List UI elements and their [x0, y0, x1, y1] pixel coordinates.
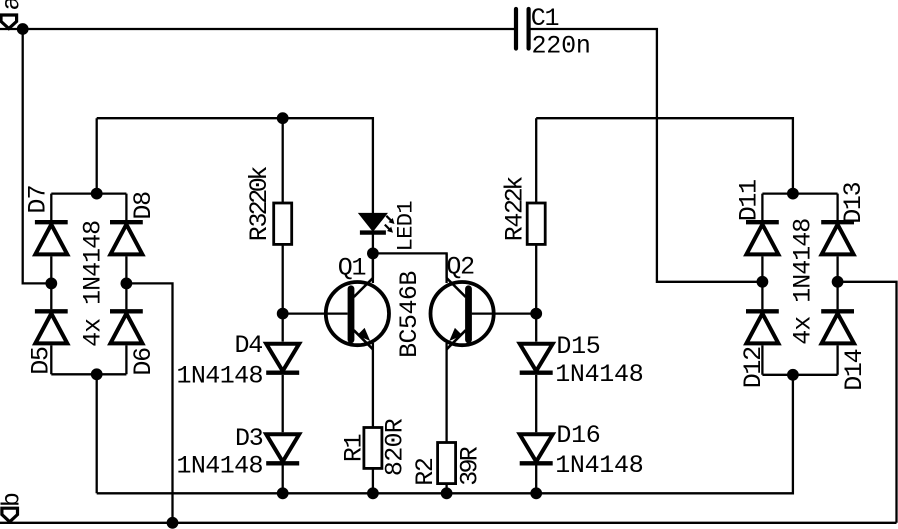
svg-text:D15: D15 [556, 332, 600, 361]
wire left rail down from a [23, 29, 52, 283]
diode D15 [520, 332, 644, 389]
resistor R2 [411, 443, 484, 486]
terminal b [2, 508, 18, 522]
svg-text:D11: D11 [734, 180, 763, 221]
wire right bridge chain D11/D12 [761, 194, 763, 375]
svg-text:22k: 22k [501, 177, 530, 214]
node D3 bottom [277, 487, 289, 499]
wire right bridge bottom [762, 374, 837, 376]
wire right bridge chain D13/D14 [836, 194, 838, 375]
node Q2 base [530, 308, 542, 320]
node left bridge bottom [91, 368, 103, 380]
capacitor C1 [516, 4, 591, 61]
svg-text:D16: D16 [556, 421, 600, 450]
diode D6 [110, 311, 158, 375]
svg-text:D3: D3 [235, 424, 263, 453]
transistor Q1 [326, 253, 389, 349]
svg-text:LED1: LED1 [393, 201, 418, 252]
node a junction [17, 23, 29, 35]
diode D8 [110, 192, 158, 255]
wire Q2 emitter to R2 [445, 343, 447, 493]
svg-text:Q2: Q2 [446, 253, 474, 282]
wire rail y118 left [97, 118, 373, 214]
svg-text:C1: C1 [531, 4, 559, 33]
terminal a [1, 15, 17, 29]
svg-text:R2: R2 [411, 458, 440, 486]
wire rail y118 right [536, 118, 793, 193]
diode D11 [734, 180, 779, 255]
LED1 [360, 201, 419, 252]
transistor Q2 [431, 253, 494, 350]
svg-text:1N4148: 1N4148 [555, 360, 643, 389]
svg-text:D5: D5 [26, 347, 55, 375]
svg-text:1N4148: 1N4148 [177, 362, 263, 391]
svg-text:39R: 39R [455, 446, 484, 486]
svg-text:D8: D8 [129, 192, 158, 220]
wire left chain D7/D5 [50, 194, 52, 375]
wire left bridge bottom stub [96, 374, 98, 493]
diode D16 [520, 421, 644, 480]
diode D3 [177, 424, 300, 481]
wire right bridge top [762, 192, 837, 194]
resistor R1 [339, 418, 409, 476]
wire left bridge bottom [51, 373, 126, 375]
wire b rail [0, 522, 897, 524]
node left bridge top [91, 188, 103, 200]
diode D13 [821, 182, 868, 254]
svg-text:D12: D12 [739, 347, 768, 388]
wire Q2 base [472, 312, 537, 314]
node Q1 base [277, 308, 289, 320]
node R3 top [277, 112, 289, 124]
svg-text:1N4148: 1N4148 [177, 452, 263, 481]
svg-text:R3: R3 [245, 213, 274, 241]
wire left bridge top stub [96, 118, 98, 193]
diode D12 [739, 311, 779, 388]
wire LED bottom / collector junction row [373, 234, 447, 283]
svg-text:1N4148: 1N4148 [555, 451, 643, 480]
wire R3 column [282, 118, 284, 493]
svg-text:220k: 220k [245, 167, 274, 216]
svg-text:820R: 820R [381, 418, 410, 476]
wire top rail a [0, 28, 514, 30]
svg-text:220n: 220n [532, 32, 591, 61]
wire bridge-left mid-right to b rail [126, 283, 172, 522]
svg-text:D4: D4 [235, 331, 263, 360]
node left bridge mid-right [121, 278, 133, 290]
svg-text:a: a [0, 0, 26, 11]
resistor R3 [245, 167, 292, 245]
wire right chain D8/D6 [125, 194, 127, 375]
node right bridge top [787, 188, 799, 200]
svg-text:4x 1N4148: 4x 1N4148 [788, 219, 817, 345]
diode D4 [177, 331, 300, 391]
wire C1 right to vertical [530, 29, 762, 282]
node right bridge mid-left [757, 276, 769, 288]
svg-text:D14: D14 [840, 349, 869, 390]
svg-text:BC546B: BC546B [395, 271, 424, 358]
svg-text:D7: D7 [24, 185, 53, 213]
wire rail y493 [97, 375, 793, 494]
svg-text:D13: D13 [839, 182, 868, 223]
node R2 bottom [441, 487, 453, 499]
wire Q1 base [283, 312, 348, 314]
node R1 bottom [367, 487, 379, 499]
diode D5 [26, 311, 67, 374]
wire R4 column [535, 118, 537, 493]
wire left bridge top [51, 192, 126, 194]
node right bridge mid-right [832, 276, 844, 288]
diode D14 [821, 311, 869, 391]
wire right bridge mid-right to right edge down to b rail [838, 282, 897, 523]
wire Q1 emitter to R1 [372, 343, 374, 493]
svg-text:Q1: Q1 [338, 254, 366, 283]
svg-text:R1: R1 [339, 434, 368, 462]
node left bridge mid-left [45, 278, 57, 290]
node right bridge bottom [787, 369, 799, 381]
svg-text:D6: D6 [129, 348, 158, 376]
node D16 bottom [530, 487, 542, 499]
node b rail [167, 517, 179, 529]
node LED collector [367, 248, 379, 260]
diode D7 [24, 185, 68, 254]
svg-text:b: b [0, 493, 26, 507]
svg-text:R4: R4 [501, 214, 530, 242]
svg-text:4x 1N4148: 4x 1N4148 [79, 221, 108, 347]
resistor R4 [501, 177, 546, 245]
